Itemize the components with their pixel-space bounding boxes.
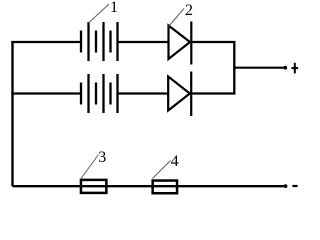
leader line for label 1 [89, 4, 110, 23]
wire: second branch, left segment [11, 92, 81, 94]
svg-text:1: 1 [110, 0, 118, 16]
wire: right vertical joining the two branches [233, 41, 235, 95]
wire: bottom return line [13, 185, 284, 187]
leader line for label 2 [169, 9, 185, 27]
fuse 4 (rectangle over the wire) [153, 181, 177, 194]
terminal + (output dot) [283, 66, 287, 70]
wire: top branch, left segment [11, 41, 81, 43]
wire: top branch, diode to right corner [191, 41, 235, 43]
plus sign [291, 63, 298, 74]
wire: top branch, battery to diode [118, 41, 169, 43]
battery (lower bank) [81, 74, 118, 113]
wire: left vertical bus [11, 41, 13, 186]
minus sign [292, 185, 297, 187]
wire: second branch, diode to right corner [191, 92, 235, 94]
leader line for label 4 [153, 161, 171, 179]
fuse 3 (rectangle over the wire) [81, 180, 106, 193]
battery 1 (upper bank) [81, 22, 118, 61]
wire: second branch, battery to diode [118, 92, 169, 94]
svg-text:2: 2 [185, 2, 193, 19]
terminal - (output dot) [284, 184, 288, 188]
svg-text:3: 3 [98, 149, 106, 166]
wire: positive output lead [233, 67, 283, 69]
diode (lower) [168, 72, 191, 117]
leader line for label 3 [81, 155, 99, 179]
svg-text:4: 4 [171, 153, 179, 170]
diode 2 (upper) [169, 22, 192, 65]
